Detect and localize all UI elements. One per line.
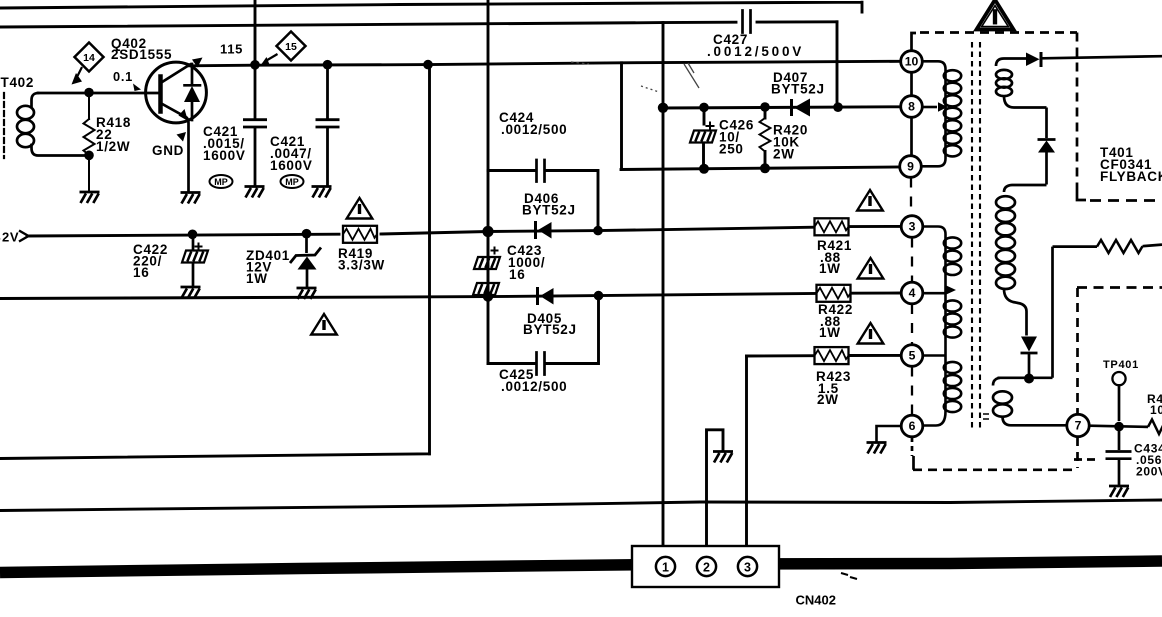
svg-text:MP: MP bbox=[214, 177, 228, 187]
svg-text:16: 16 bbox=[509, 267, 525, 282]
svg-text:6: 6 bbox=[909, 419, 916, 433]
svg-text:9: 9 bbox=[907, 160, 914, 174]
svg-text:BYT52J: BYT52J bbox=[771, 82, 825, 97]
svg-text:1: 1 bbox=[662, 561, 669, 575]
svg-text:15: 15 bbox=[285, 41, 297, 53]
svg-text:3.3/3W: 3.3/3W bbox=[338, 258, 385, 273]
svg-text:3: 3 bbox=[909, 220, 916, 234]
svg-text:10/: 10/ bbox=[1150, 403, 1162, 417]
svg-text:2W: 2W bbox=[817, 392, 839, 407]
svg-text:MP: MP bbox=[285, 177, 299, 187]
svg-text:8: 8 bbox=[908, 100, 915, 114]
svg-text:BYT52J: BYT52J bbox=[522, 203, 576, 218]
svg-text:.0012/500V: .0012/500V bbox=[707, 44, 804, 59]
svg-text:1W: 1W bbox=[819, 261, 841, 276]
svg-text:10: 10 bbox=[905, 55, 919, 69]
svg-text:3: 3 bbox=[744, 561, 751, 575]
svg-text:CN402: CN402 bbox=[796, 593, 836, 608]
svg-text:1/2W: 1/2W bbox=[96, 139, 130, 154]
svg-text:7: 7 bbox=[1075, 419, 1082, 433]
svg-text:2W: 2W bbox=[773, 147, 795, 162]
svg-text:T402: T402 bbox=[1, 75, 35, 90]
svg-text:14: 14 bbox=[83, 52, 95, 64]
svg-text:1W: 1W bbox=[246, 271, 268, 286]
svg-text:2V: 2V bbox=[2, 230, 19, 245]
svg-text:16: 16 bbox=[133, 265, 149, 280]
svg-text:1600V: 1600V bbox=[270, 158, 313, 173]
svg-text:115: 115 bbox=[220, 42, 243, 57]
svg-text:2: 2 bbox=[703, 561, 710, 575]
svg-text:5: 5 bbox=[909, 349, 916, 363]
svg-text:FLYBACK: FLYBACK bbox=[1100, 169, 1162, 184]
svg-text:1W: 1W bbox=[819, 325, 841, 340]
svg-text:2SD1555: 2SD1555 bbox=[111, 47, 172, 62]
svg-text:200V: 200V bbox=[1136, 465, 1162, 479]
svg-text:GND: GND bbox=[152, 143, 184, 158]
svg-text:250: 250 bbox=[719, 142, 744, 157]
svg-text:BYT52J: BYT52J bbox=[523, 322, 577, 337]
svg-text:.0012/500: .0012/500 bbox=[501, 379, 567, 394]
svg-text:TP401: TP401 bbox=[1103, 359, 1139, 371]
svg-text:.0012/500: .0012/500 bbox=[501, 122, 567, 137]
svg-text:0.1: 0.1 bbox=[113, 69, 133, 84]
svg-text:1600V: 1600V bbox=[203, 148, 246, 163]
svg-text:4: 4 bbox=[909, 286, 916, 300]
